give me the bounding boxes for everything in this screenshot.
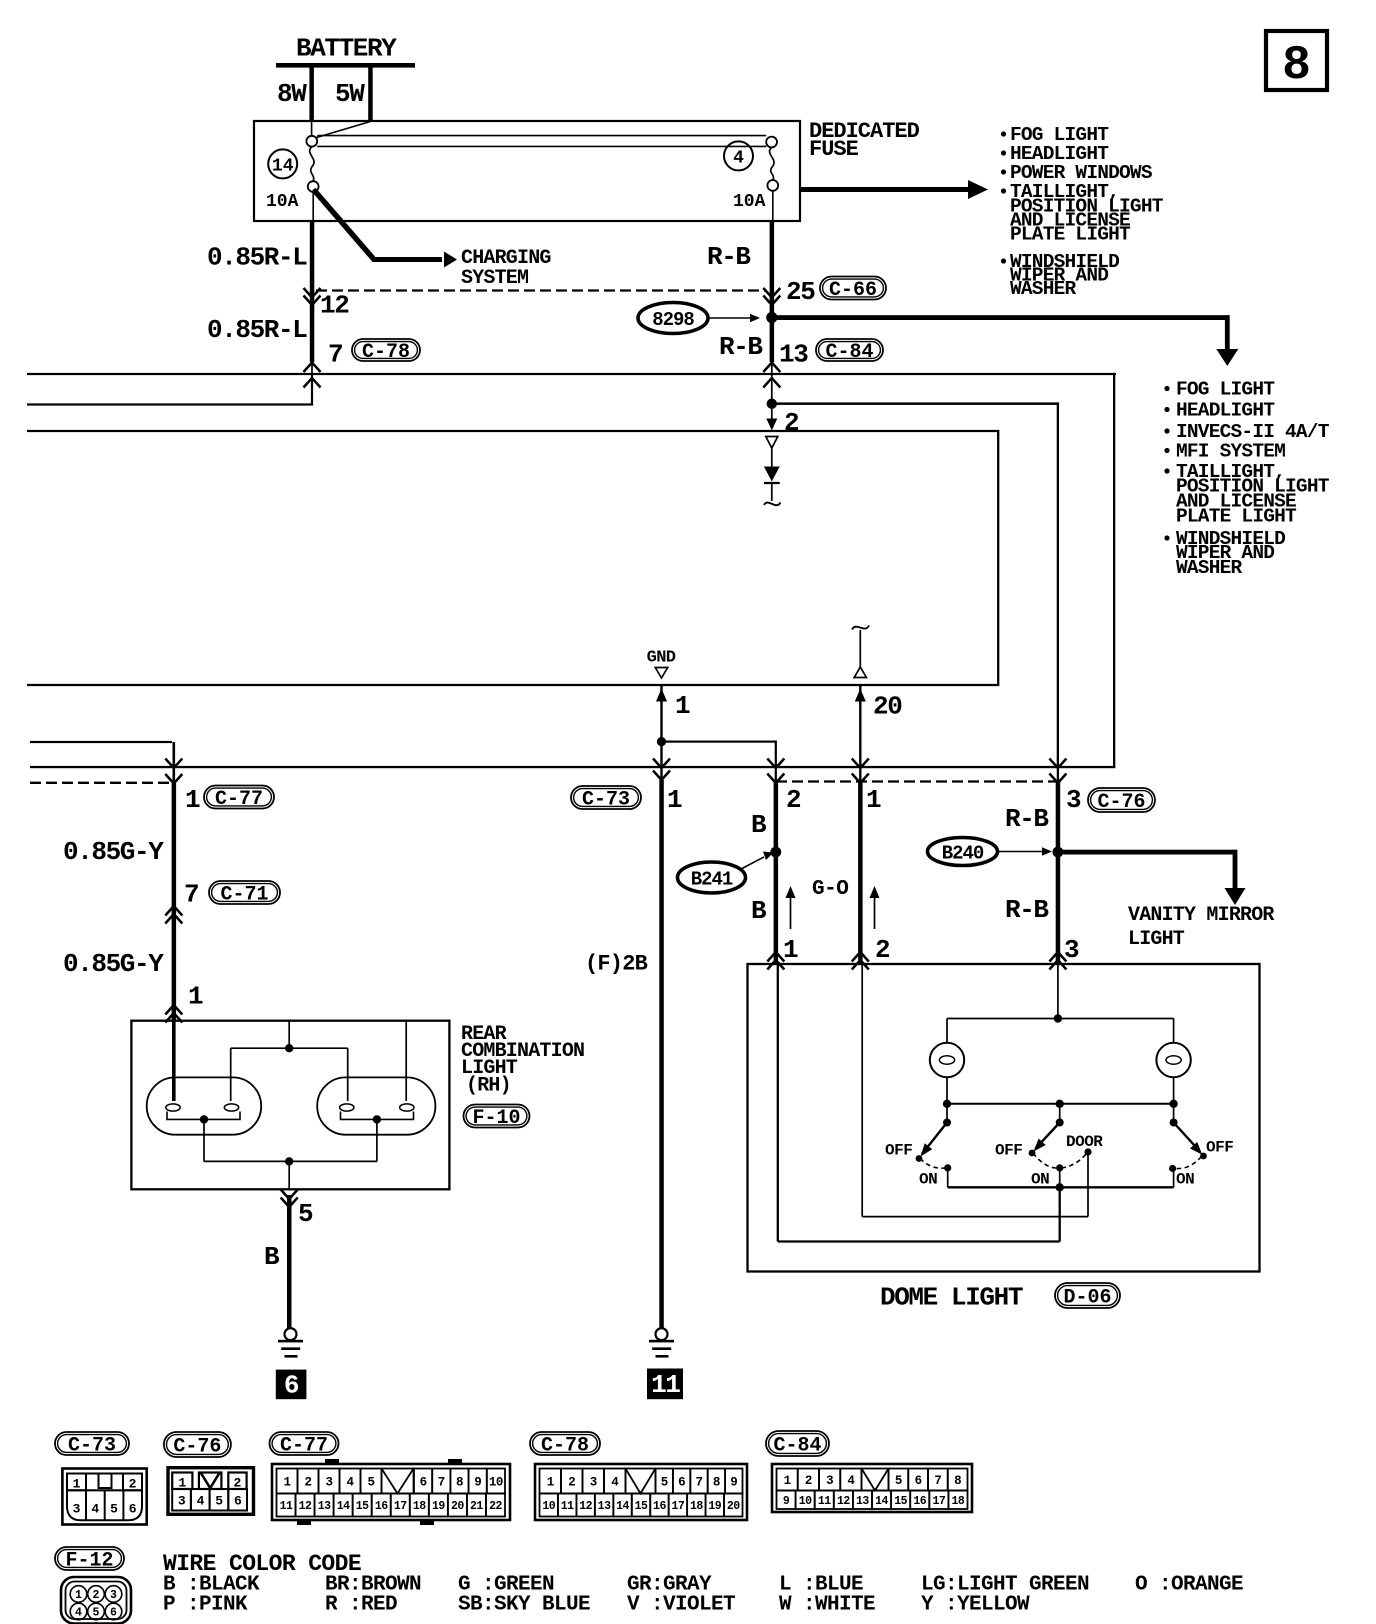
svg-text:10A: 10A (266, 192, 299, 212)
svg-text:12: 12 (579, 1500, 592, 1513)
connector drawing F-12 (61, 1577, 131, 1624)
wire (F)2B to ground 11 (585, 766, 664, 1329)
svg-text:5W: 5W (335, 79, 365, 109)
svg-text:0.85R-L: 0.85R-L (207, 315, 307, 345)
wire 0.85R-L from fuse 14 (310, 221, 315, 376)
svg-text:ON: ON (1176, 1171, 1194, 1189)
svg-text:18: 18 (952, 1495, 965, 1508)
svg-text:R-B: R-B (719, 332, 763, 362)
svg-text:2: 2 (93, 1589, 100, 1602)
svg-text:5: 5 (110, 1502, 118, 1517)
connector ref C-77 (204, 786, 274, 812)
svg-text:C-77: C-77 (280, 1435, 328, 1458)
dedicated fuse box (254, 121, 800, 221)
splice node B241 (770, 847, 781, 858)
fuse box label DEDICATED FUSE (809, 119, 920, 162)
connector drawing C-73 (62, 1469, 146, 1525)
page number box 8 (1266, 31, 1327, 93)
svg-text:C-77: C-77 (215, 788, 263, 811)
svg-text:4: 4 (197, 1493, 205, 1508)
svg-text:FOG LIGHT: FOG LIGHT (1176, 379, 1275, 401)
rear bulb right (317, 1077, 435, 1161)
svg-text:20: 20 (451, 1500, 464, 1513)
svg-text:C-73: C-73 (68, 1435, 116, 1458)
svg-text:17: 17 (394, 1500, 407, 1513)
connector ref C-77 bottom (270, 1432, 339, 1458)
wire stub 8W to fuse 14 (311, 121, 313, 136)
rear combination light box (131, 1021, 449, 1190)
svg-text:2: 2 (784, 408, 799, 438)
connector ref C-84 (816, 339, 883, 364)
wire 5W tap diagonal (317, 122, 371, 138)
svg-text:1: 1 (667, 785, 682, 815)
svg-text:C-76: C-76 (173, 1436, 221, 1459)
svg-text:5: 5 (661, 1476, 668, 1490)
splice 8298 (638, 303, 708, 334)
ground ref 11 (647, 1369, 683, 1401)
load list of fuse 4 (1001, 124, 1164, 300)
svg-text:G-O: G-O (812, 878, 848, 901)
svg-text:19: 19 (708, 1500, 721, 1513)
rear bulb left (147, 1077, 262, 1161)
bottom rail line (30, 766, 1115, 768)
svg-text:10: 10 (542, 1500, 555, 1513)
svg-text:8: 8 (1282, 39, 1311, 93)
svg-text:ON: ON (919, 1171, 937, 1189)
connector ref C-71 (209, 881, 280, 907)
dome return wire B (778, 964, 1060, 1242)
dome switch left (885, 1104, 951, 1189)
svg-text:D-06: D-06 (1063, 1287, 1111, 1310)
dome bulb left (930, 1043, 964, 1104)
svg-text:O :ORANGE: O :ORANGE (1135, 1574, 1243, 1597)
svg-text:0.85R-L: 0.85R-L (207, 243, 307, 273)
arrow from dedicated fuse to loads (800, 180, 988, 199)
svg-text:10: 10 (489, 1476, 503, 1490)
svg-text:1: 1 (283, 1476, 290, 1490)
connector drawing C-84 (772, 1464, 972, 1512)
svg-text:ON: ON (1031, 1171, 1049, 1189)
svg-text:11: 11 (280, 1500, 293, 1513)
svg-text:9: 9 (730, 1476, 737, 1490)
svg-text:16: 16 (913, 1495, 926, 1508)
svg-text:WASHER: WASHER (1176, 557, 1243, 579)
svg-text:6: 6 (284, 1370, 299, 1400)
heavy feed line to load list 2 (772, 315, 1239, 366)
junction block line A (27, 373, 1116, 768)
svg-text:7: 7 (695, 1476, 702, 1490)
junction node R-B (766, 312, 777, 323)
arrow B241 to splice (741, 852, 774, 870)
direction arrow dome pin 1 (783, 886, 798, 965)
svg-text:1: 1 (185, 785, 200, 815)
connector drawing C-76 (168, 1468, 254, 1515)
svg-text:C-66: C-66 (829, 279, 877, 302)
svg-text:C-78: C-78 (541, 1435, 589, 1458)
rear light internal wiring (174, 1021, 406, 1101)
svg-text:13: 13 (856, 1495, 869, 1508)
svg-text:1: 1 (73, 1477, 81, 1492)
svg-text:C-71: C-71 (220, 884, 268, 907)
svg-text:8W: 8W (277, 79, 307, 109)
connector drawing C-77 (272, 1459, 510, 1525)
direction arrow dome pin 2 (870, 886, 891, 965)
vanity mirror light label (1128, 904, 1274, 951)
dome light box (748, 964, 1260, 1272)
svg-text:14: 14 (272, 157, 294, 177)
wire color code legend (163, 1551, 1243, 1617)
svg-text:F-12: F-12 (65, 1550, 113, 1573)
wire 8W from battery (277, 67, 314, 121)
dome bulb right (1156, 1043, 1190, 1104)
svg-text:Y :YELLOW: Y :YELLOW (921, 1594, 1030, 1617)
connector C-78 crossing pin 7 (304, 340, 343, 388)
svg-text:4: 4 (75, 1607, 82, 1620)
junction block line B right segment (772, 402, 1059, 766)
svg-text:5: 5 (367, 1476, 374, 1490)
svg-text:6: 6 (915, 1474, 922, 1488)
arrow B240 to splice (999, 847, 1052, 855)
svg-text:14: 14 (616, 1500, 629, 1513)
svg-text:11: 11 (651, 1370, 680, 1400)
dome switch right (1169, 1104, 1233, 1189)
arrow from 8298 to junction (709, 314, 760, 322)
wire R-B pin 3 crossing (1049, 759, 1081, 816)
svg-text:9: 9 (474, 1476, 481, 1490)
junction node line B right (767, 399, 777, 409)
svg-text:GND: GND (647, 649, 676, 668)
svg-text:C-78: C-78 (362, 341, 410, 364)
svg-text:LIGHT: LIGHT (1128, 928, 1185, 951)
svg-text:0.85G-Y: 0.85G-Y (63, 837, 164, 867)
connector ref C-73 (571, 786, 641, 812)
dome bulb rail (943, 1100, 1178, 1108)
connector ref F-12 (55, 1547, 124, 1573)
svg-text:3: 3 (178, 1493, 186, 1508)
svg-text:2: 2 (805, 1474, 812, 1488)
svg-text:12: 12 (837, 1495, 850, 1508)
svg-text:P :PINK: P :PINK (163, 1594, 248, 1617)
connector C-71 inline pin 7 (165, 880, 198, 924)
svg-text:11: 11 (818, 1495, 831, 1508)
svg-text:8298: 8298 (652, 309, 694, 331)
svg-text:20: 20 (873, 692, 902, 722)
svg-text:1: 1 (675, 691, 690, 721)
svg-text:C-76: C-76 (1097, 791, 1145, 814)
wire 5W from battery (335, 67, 373, 122)
svg-text:3: 3 (325, 1476, 332, 1490)
svg-text:5: 5 (215, 1493, 223, 1508)
svg-text:25: 25 (786, 277, 815, 307)
svg-text:1: 1 (783, 935, 798, 965)
connector C-66 crossing right pin 25 (763, 277, 815, 307)
connector C-84 crossing pin 13 (763, 363, 780, 388)
ground ref 6 (276, 1370, 307, 1401)
svg-text:20: 20 (727, 1500, 740, 1513)
dashed harness line C-66 (316, 289, 766, 291)
svg-text:DOME LIGHT: DOME LIGHT (880, 1283, 1023, 1313)
svg-text:17: 17 (672, 1500, 685, 1513)
taillight feed from junction block (30, 741, 176, 1021)
svg-text:8: 8 (456, 1476, 463, 1490)
rear light pin 5 (281, 1190, 313, 1230)
connector ref C-66 (820, 277, 886, 303)
svg-text:(F)2B: (F)2B (585, 952, 648, 977)
fuse 14 (10A) (266, 136, 319, 221)
svg-text:SB:SKY BLUE: SB:SKY BLUE (458, 1594, 590, 1617)
svg-text:4: 4 (847, 1474, 855, 1488)
wire ETACS pin 1 GND (656, 686, 690, 767)
svg-text:R-B: R-B (707, 242, 751, 272)
fuse bus bars (317, 136, 766, 147)
svg-text:R-B: R-B (1005, 895, 1049, 925)
svg-text:18: 18 (690, 1500, 703, 1513)
svg-text:1: 1 (188, 982, 203, 1012)
wire R-B to dome light (1056, 766, 1061, 964)
dome pin 2 entry (852, 952, 869, 970)
svg-text:PLATE LIGHT: PLATE LIGHT (1010, 224, 1131, 246)
svg-text:4: 4 (346, 1476, 354, 1490)
wire G-O to dome light (858, 766, 863, 964)
svg-text:3: 3 (1066, 785, 1081, 815)
svg-text:4: 4 (733, 149, 744, 169)
svg-text:B: B (751, 810, 767, 840)
svg-text:OFF: OFF (1206, 1139, 1233, 1157)
svg-text:7: 7 (184, 880, 198, 910)
svg-text:B: B (264, 1242, 280, 1272)
svg-text:5: 5 (298, 1199, 313, 1229)
wire B to dome light (774, 766, 779, 964)
wire C-73 pin 1 crossing (653, 759, 682, 816)
dashed connector line right (776, 780, 1057, 782)
splice B241 (678, 862, 746, 893)
wire B to ground 6 (264, 1195, 292, 1329)
svg-text:R-B: R-B (1005, 804, 1049, 834)
svg-text:FUSE: FUSE (809, 137, 859, 162)
dome pin 1 entry (767, 952, 784, 970)
svg-text:15: 15 (356, 1500, 369, 1513)
wire branch to dome pin 1 (657, 737, 777, 767)
svg-text:13: 13 (598, 1500, 611, 1513)
dome pin 3 entry (1049, 952, 1066, 970)
svg-text:19: 19 (432, 1500, 445, 1513)
wire to ETACS pin 2 (766, 406, 799, 438)
splice B240 (928, 838, 998, 866)
svg-text:SYSTEM: SYSTEM (461, 267, 529, 290)
wire R-B below line A (771, 375, 773, 399)
svg-text:W :WHITE: W :WHITE (779, 1594, 875, 1617)
svg-text:13: 13 (318, 1500, 331, 1513)
svg-text:8: 8 (954, 1474, 961, 1488)
svg-text:7: 7 (934, 1474, 941, 1488)
svg-text:6: 6 (234, 1493, 242, 1508)
arrow to charging system (314, 190, 458, 268)
svg-text:C-84: C-84 (825, 341, 873, 364)
svg-text:B: B (751, 896, 767, 926)
svg-text:HEADLIGHT: HEADLIGHT (1176, 400, 1275, 422)
svg-text:6: 6 (129, 1502, 137, 1517)
load list 2 (1164, 379, 1329, 580)
svg-text:7: 7 (438, 1476, 445, 1490)
svg-text:V :VIOLET: V :VIOLET (627, 1594, 735, 1617)
svg-text:15: 15 (894, 1495, 907, 1508)
svg-text:C-84: C-84 (773, 1435, 821, 1458)
svg-text:4: 4 (91, 1502, 99, 1517)
svg-text:MFI SYSTEM: MFI SYSTEM (1176, 441, 1285, 463)
connector ref C-84 bottom (766, 1431, 829, 1458)
svg-text:3: 3 (826, 1474, 833, 1488)
svg-text:6: 6 (678, 1476, 685, 1490)
svg-text:9: 9 (783, 1495, 790, 1508)
svg-text:12: 12 (320, 291, 349, 321)
svg-text:1: 1 (866, 785, 881, 815)
svg-text:2: 2 (568, 1476, 575, 1490)
svg-text:21: 21 (470, 1500, 483, 1513)
internal diode circuit (764, 437, 781, 506)
svg-text:VANITY MIRROR: VANITY MIRROR (1128, 904, 1274, 927)
svg-text:22: 22 (489, 1500, 502, 1513)
ground symbol 11 (649, 1328, 674, 1357)
internal GND node (647, 649, 676, 679)
svg-text:DOOR: DOOR (1066, 1133, 1103, 1151)
connector C-77 crossing pin 1 (165, 759, 200, 816)
svg-text:PLATE LIGHT: PLATE LIGHT (1176, 506, 1297, 528)
junction block line B left (27, 375, 313, 406)
connector C-66 crossing left pin 12 (304, 288, 350, 321)
svg-text:2: 2 (786, 785, 801, 815)
battery bus bar (276, 63, 415, 68)
svg-text:10: 10 (799, 1495, 812, 1508)
wire ETACS pin 20 (855, 686, 902, 767)
svg-text:17: 17 (932, 1495, 945, 1508)
dome feed rail (947, 964, 1174, 1043)
svg-text:18: 18 (413, 1500, 426, 1513)
svg-text:1: 1 (547, 1476, 554, 1490)
internal circuit hook node 20 (852, 626, 869, 678)
svg-text:3: 3 (590, 1476, 597, 1490)
svg-text:(RH): (RH) (466, 1075, 511, 1098)
svg-text:15: 15 (635, 1500, 648, 1513)
svg-text:5: 5 (895, 1474, 902, 1488)
svg-text:BATTERY: BATTERY (296, 34, 397, 64)
svg-text:F-10: F-10 (472, 1107, 520, 1130)
splice node B240 (1053, 847, 1064, 858)
svg-text:B240: B240 (942, 842, 984, 864)
svg-text:10A: 10A (733, 192, 766, 212)
svg-text:3: 3 (73, 1502, 81, 1517)
charging system label (461, 247, 551, 290)
wire B pin 2 crossing (767, 759, 801, 816)
ETACS unit box (27, 431, 998, 685)
connector ref C-76 (1088, 788, 1155, 814)
svg-text:3: 3 (110, 1589, 117, 1602)
svg-text:OFF: OFF (995, 1142, 1022, 1160)
svg-text:0.85G-Y: 0.85G-Y (63, 949, 164, 979)
ground symbol 6 (278, 1328, 303, 1357)
connector ref C-73 bottom (55, 1432, 129, 1458)
wire G-O pin 1 crossing (852, 759, 881, 816)
svg-text:5: 5 (93, 1607, 100, 1620)
svg-text:16: 16 (375, 1500, 388, 1513)
fuse 4 (10A) (724, 137, 778, 221)
dome ON bus (948, 1183, 1174, 1191)
rear light ground bus (204, 1157, 377, 1189)
svg-text:1: 1 (75, 1589, 82, 1602)
svg-text:6: 6 (110, 1607, 117, 1620)
dome door wire G-O (862, 964, 1088, 1217)
connector ref F-10 (464, 1105, 530, 1131)
connector drawing C-78 (535, 1464, 747, 1520)
svg-text:B241: B241 (691, 868, 733, 890)
svg-text:R :RED: R :RED (325, 1594, 397, 1617)
connector ref D-06 (1055, 1283, 1120, 1310)
svg-text:11: 11 (561, 1500, 574, 1513)
svg-text:14: 14 (875, 1495, 888, 1508)
dashed connector line left (30, 782, 172, 784)
svg-text:2: 2 (129, 1477, 137, 1492)
svg-text:14: 14 (337, 1500, 350, 1513)
svg-text:2: 2 (304, 1476, 311, 1490)
dome switch middle (995, 1104, 1103, 1189)
svg-text:OFF: OFF (885, 1142, 912, 1160)
svg-text:13: 13 (779, 340, 808, 370)
rear light pin 1 (165, 982, 203, 1023)
svg-text:7: 7 (328, 340, 342, 370)
svg-text:8: 8 (713, 1476, 720, 1490)
svg-text:16: 16 (653, 1500, 666, 1513)
connector ref C-78 bottom (530, 1432, 600, 1458)
connector ref C-76 bottom (164, 1432, 231, 1459)
rear light labels (461, 1023, 584, 1098)
svg-text:12: 12 (299, 1500, 312, 1513)
svg-text:4: 4 (611, 1476, 619, 1490)
svg-text:6: 6 (420, 1476, 427, 1490)
svg-text:WASHER: WASHER (1010, 278, 1077, 300)
wire R-B from fuse 4 (770, 221, 775, 376)
svg-text:1: 1 (784, 1474, 791, 1488)
svg-text:C-73: C-73 (582, 789, 630, 812)
branch to vanity mirror light (1058, 850, 1246, 905)
connector ref C-78 (352, 339, 420, 364)
svg-text:2: 2 (875, 935, 890, 965)
